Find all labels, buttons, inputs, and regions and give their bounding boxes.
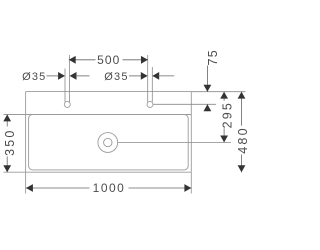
dimension Ø35 right arrow pointing right — [141, 72, 148, 80]
right edge + 1000 extension — [190, 92, 192, 194]
dimension 295 line — [223, 92, 225, 143]
svg-text:500: 500 — [97, 53, 120, 67]
hole-center right extension line — [153, 103, 216, 105]
deck-top right extension line — [191, 91, 245, 93]
svg-text:295: 295 — [221, 101, 235, 128]
dimension 480 down arrow — [238, 165, 246, 172]
right tap hole circle — [147, 101, 153, 107]
right tap hole left tangent line (500 extension) — [147, 55, 149, 102]
dimension 350 up arrow — [3, 115, 11, 122]
drain leader line — [118, 141, 231, 143]
left tap hole right tangent line (500 extension) — [69, 55, 71, 102]
right tap hole right tangent line — [151, 67, 153, 102]
dimension Ø35 left leader — [47, 75, 60, 77]
dimension 75 line — [206, 66, 208, 92]
dimension 1000 line — [26, 187, 191, 189]
dimension 295 down arrow — [220, 136, 228, 143]
svg-text:75: 75 — [206, 49, 220, 65]
dimension 350 line — [6, 115, 8, 173]
dimension 295 up arrow — [220, 92, 228, 99]
dimension 1000 right arrow — [184, 184, 191, 192]
svg-text:Ø35: Ø35 — [104, 71, 128, 83]
dimension Ø35 right leader — [129, 75, 142, 77]
drain inner circle — [104, 138, 112, 146]
back edge — [26, 91, 192, 93]
dimension 75 down arrow — [204, 85, 212, 92]
svg-text:Ø35: Ø35 — [22, 71, 46, 83]
deck line + 350 extension — [4, 114, 192, 116]
dimension 350 down arrow — [3, 165, 11, 172]
svg-text:350: 350 — [3, 128, 17, 155]
dimension 1000 left arrow — [26, 184, 33, 192]
drain outer circle — [98, 133, 118, 153]
svg-text:480: 480 — [236, 126, 250, 153]
dimension Ø35 right right leader — [158, 75, 174, 77]
dimension 480 line — [241, 92, 243, 173]
basin outer outline — [4, 92, 192, 194]
dimension Ø35 left arrow pointing right — [58, 72, 65, 80]
dimension Ø35 right arrow pointing left — [152, 72, 159, 80]
dimension 500 right arrow — [141, 56, 148, 64]
left tap hole left tangent line — [64, 69, 66, 102]
bowl inner rounded rect — [29, 115, 189, 170]
left edge + 1000 extension — [25, 92, 27, 194]
svg-text:1000: 1000 — [93, 181, 126, 195]
dimension 500 left arrow — [69, 56, 76, 64]
dimension 500 line — [69, 59, 148, 61]
dimension Ø35 left right leader — [76, 75, 90, 77]
dimension 75 up arrow — [204, 104, 212, 111]
dimension 480 up arrow — [238, 92, 246, 99]
front edge + 350 extension — [4, 171, 192, 173]
left tap hole circle — [64, 101, 70, 107]
dimension Ø35 left arrow pointing left — [70, 72, 77, 80]
